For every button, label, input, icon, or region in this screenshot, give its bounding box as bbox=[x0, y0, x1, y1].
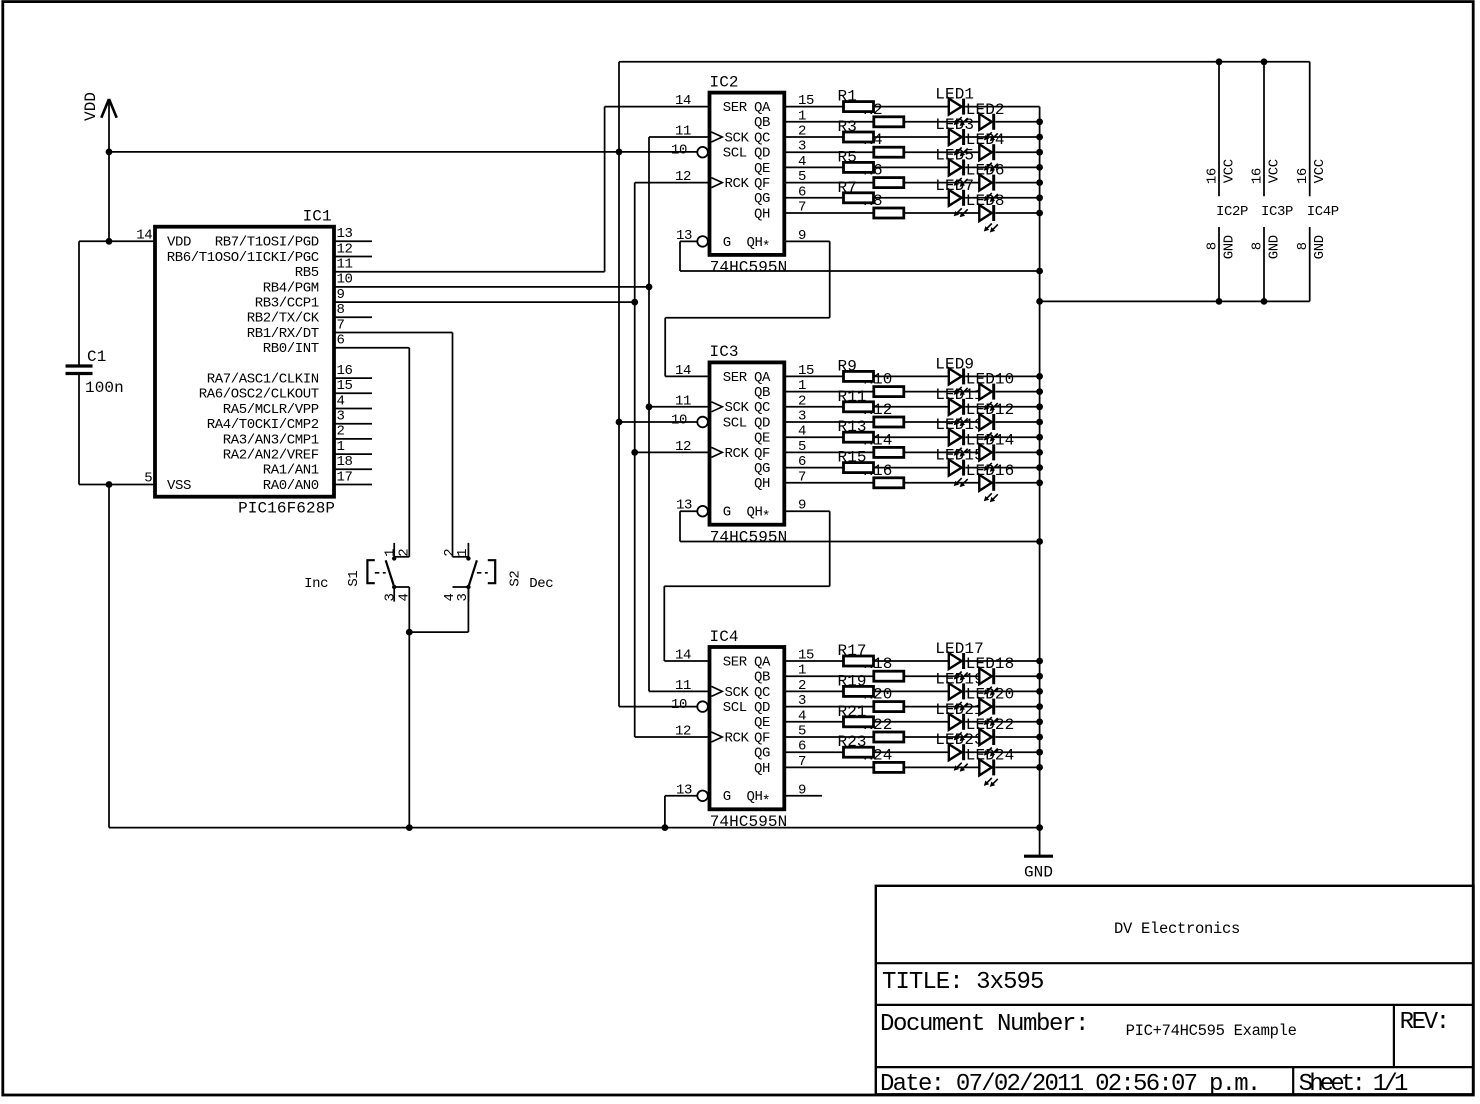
junction VCC rail at IC2P bbox=[1216, 58, 1223, 65]
wire 595 output pin to resistor R1 bbox=[784, 106, 843, 108]
label resistor R9 bbox=[838, 357, 857, 375]
switch S2 Dec bbox=[442, 543, 553, 602]
wire SCK vertical bus bbox=[649, 137, 710, 691]
svg-text:SCL: SCL bbox=[723, 415, 747, 431]
svg-text:SER: SER bbox=[723, 654, 748, 670]
wire resistor R18 to LED18 anode bbox=[904, 675, 980, 677]
svg-text:VCC: VCC bbox=[1222, 159, 1238, 183]
svg-text:RA7/ASC1/CLKIN: RA7/ASC1/CLKIN bbox=[207, 372, 319, 388]
LED LED3 bbox=[949, 129, 968, 157]
LED LED2 bbox=[979, 114, 998, 142]
wire LED16 cathode to GND rail bbox=[995, 482, 1039, 484]
label resistor R17 bbox=[838, 642, 867, 660]
wire LED22 cathode to GND rail bbox=[995, 736, 1039, 738]
wire resistor R15 to LED15 anode bbox=[874, 467, 949, 469]
switch S1 Inc bbox=[304, 543, 412, 602]
label resistor R20 bbox=[863, 686, 892, 704]
junction GND rail at IC3 G wire bbox=[1036, 538, 1043, 545]
svg-text:QF: QF bbox=[754, 176, 770, 192]
svg-text:10: 10 bbox=[671, 143, 687, 159]
label LED23 bbox=[935, 731, 984, 749]
svg-text:8: 8 bbox=[1250, 242, 1266, 250]
junction cathode rail bbox=[1036, 703, 1043, 710]
label resistor R11 bbox=[838, 388, 867, 406]
label LED18 bbox=[966, 655, 1015, 673]
svg-text:RCK: RCK bbox=[725, 176, 750, 192]
LED LED6 bbox=[979, 175, 998, 203]
svg-text:16: 16 bbox=[1250, 168, 1266, 184]
svg-text:QB: QB bbox=[754, 115, 770, 131]
wire net SCK (RB4 to SCK bus) bbox=[372, 286, 649, 288]
junction VCC rail at IC3P bbox=[1261, 58, 1268, 65]
junction RCK bus at RB3 bbox=[631, 299, 638, 306]
svg-text:RB2/TX/CK: RB2/TX/CK bbox=[247, 311, 320, 327]
svg-text:QD: QD bbox=[754, 415, 770, 431]
wire 595 output pin to resistor R4 bbox=[784, 151, 874, 153]
label LED9 bbox=[935, 355, 974, 373]
svg-text:RB0/INT: RB0/INT bbox=[263, 341, 319, 357]
label LED3 bbox=[935, 116, 974, 134]
wire 595 output pin to resistor R9 bbox=[784, 375, 843, 377]
wire IC3 G pin 13 to GND rail bbox=[680, 511, 1040, 541]
label LED17 bbox=[935, 640, 984, 658]
svg-text:10: 10 bbox=[671, 413, 687, 429]
svg-text:VSS: VSS bbox=[167, 478, 191, 494]
wire resistor R4 to LED4 anode bbox=[904, 151, 980, 153]
svg-text:RB1/RX/DT: RB1/RX/DT bbox=[247, 326, 319, 342]
svg-text:14: 14 bbox=[136, 227, 152, 243]
svg-text:12: 12 bbox=[337, 241, 353, 257]
resistor R21 bbox=[844, 717, 874, 727]
resistor R2 bbox=[874, 117, 904, 127]
wire 595 output pin to resistor R6 bbox=[784, 182, 874, 184]
svg-text:13: 13 bbox=[337, 226, 353, 242]
label LED14 bbox=[966, 431, 1015, 449]
junction cathode rail bbox=[1036, 688, 1043, 695]
wire LED12 cathode to GND rail bbox=[995, 421, 1039, 423]
resistor R6 bbox=[874, 178, 904, 188]
LED LED18 bbox=[979, 668, 998, 696]
svg-text:VCC: VCC bbox=[1312, 159, 1328, 183]
wire LED23 cathode to GND rail bbox=[965, 751, 1039, 753]
resistor R12 bbox=[874, 417, 904, 427]
svg-text:74HC595N: 74HC595N bbox=[710, 259, 788, 277]
wire 595 output pin to resistor R3 bbox=[784, 136, 843, 138]
wire 595 output pin to resistor R16 bbox=[784, 482, 874, 484]
label resistor R24 bbox=[863, 746, 892, 764]
IC U1 PIC16F628P (IC1) bbox=[136, 208, 372, 518]
wire 595 output pin to resistor R10 bbox=[784, 391, 874, 393]
svg-text:RCK: RCK bbox=[725, 446, 750, 462]
junction cathode rail bbox=[1036, 179, 1043, 186]
wire VDD net: arrow down to pin 14 and C1 bbox=[108, 100, 110, 241]
junction cathode rail bbox=[1036, 718, 1043, 725]
junction cathode rail bbox=[1036, 658, 1043, 665]
capacitor C1 100n bbox=[66, 348, 124, 397]
wire 595 output pin to resistor R8 bbox=[784, 212, 874, 214]
label LED10 bbox=[966, 371, 1015, 389]
junction SCK bus at RB4 bbox=[646, 284, 653, 291]
wire LED3 cathode to GND rail bbox=[965, 136, 1039, 138]
svg-text:QH: QH bbox=[746, 789, 762, 805]
LED LED7 bbox=[949, 190, 968, 218]
power pins IC3P 74HC595 VCC/GND bbox=[1250, 62, 1294, 302]
svg-text:SCL: SCL bbox=[723, 146, 747, 162]
label resistor R23 bbox=[838, 733, 867, 751]
LED LED13 bbox=[949, 429, 968, 457]
label LED19 bbox=[935, 670, 984, 688]
svg-text:QB: QB bbox=[754, 385, 770, 401]
junction RCK bus corner at IC4 pin 12 bbox=[635, 736, 710, 738]
svg-text:14: 14 bbox=[675, 93, 691, 109]
svg-text:8: 8 bbox=[1205, 242, 1221, 250]
svg-text:QG: QG bbox=[754, 191, 770, 207]
wire resistor R13 to LED13 anode bbox=[874, 436, 949, 438]
svg-text:QH: QH bbox=[754, 206, 770, 222]
svg-text:QD: QD bbox=[754, 700, 770, 716]
junction VDD bus corner at IC4 SCL pin 10 bbox=[619, 706, 697, 708]
resistor R20 bbox=[874, 702, 904, 712]
wire resistor R2 to LED2 anode bbox=[904, 121, 980, 123]
wire resistor R5 to LED5 anode bbox=[874, 166, 949, 168]
svg-text:RB5: RB5 bbox=[295, 265, 319, 281]
svg-text:16: 16 bbox=[337, 363, 353, 379]
wire 595 output pin to resistor R17 bbox=[784, 660, 843, 662]
IC U3 74HC595N (IC3) bbox=[671, 343, 814, 546]
LED LED9 bbox=[949, 368, 968, 396]
svg-text:QH: QH bbox=[746, 235, 762, 251]
svg-text:16: 16 bbox=[1295, 168, 1311, 184]
junction cathode rail bbox=[1036, 434, 1043, 441]
svg-text:IC1: IC1 bbox=[303, 208, 332, 226]
label resistor R12 bbox=[863, 401, 892, 419]
wire LED19 cathode to GND rail bbox=[965, 690, 1039, 692]
wire resistor R9 to LED9 anode bbox=[874, 375, 949, 377]
wire IC2 QH* pin 9 cascade to IC3 SER bbox=[665, 241, 830, 376]
svg-text:*: * bbox=[762, 793, 770, 809]
svg-text:*: * bbox=[762, 509, 770, 525]
power symbol VDD bbox=[82, 92, 117, 121]
label resistor R6 bbox=[863, 162, 882, 180]
LED LED20 bbox=[979, 699, 998, 727]
IC U2 74HC595N (IC2) bbox=[671, 73, 814, 276]
resistor R7 bbox=[844, 193, 874, 203]
junction cathode rail bbox=[1036, 464, 1043, 471]
wire switch commons to GND rail bbox=[409, 587, 468, 828]
wire GND bottom rail bbox=[109, 827, 1040, 829]
svg-text:RB4/PGM: RB4/PGM bbox=[263, 280, 319, 296]
wire C1 bottom to IC1 VSS pin 5 bbox=[79, 484, 155, 486]
svg-text:RA3/AN3/CMP1: RA3/AN3/CMP1 bbox=[223, 432, 319, 448]
LED LED17 bbox=[949, 653, 968, 681]
svg-text:18: 18 bbox=[337, 454, 353, 470]
junction cathode rail bbox=[1036, 764, 1043, 771]
wire resistor R20 to LED20 anode bbox=[904, 706, 980, 708]
junction GND rail at IC2 G wire bbox=[1036, 268, 1043, 275]
svg-text:QA: QA bbox=[754, 370, 771, 386]
svg-text:TITLE: 3x595: TITLE: 3x595 bbox=[882, 969, 1043, 996]
svg-text:QH: QH bbox=[754, 476, 770, 492]
svg-text:14: 14 bbox=[675, 648, 691, 664]
svg-text:Dec: Dec bbox=[529, 576, 553, 592]
junction cathode rail bbox=[1036, 373, 1043, 380]
label resistor R22 bbox=[863, 716, 892, 734]
wire IC3 QH* pin 9 cascade to IC4 SER bbox=[664, 511, 829, 661]
wire LED2 cathode to GND rail bbox=[995, 121, 1039, 123]
svg-text:PIC+74HC595 Example: PIC+74HC595 Example bbox=[1126, 1022, 1297, 1040]
resistor R17 bbox=[844, 656, 874, 666]
label resistor R14 bbox=[863, 431, 892, 449]
svg-text:VDD: VDD bbox=[167, 235, 191, 251]
label LED2 bbox=[966, 101, 1005, 119]
svg-text:IC3P: IC3P bbox=[1261, 204, 1293, 220]
resistor R15 bbox=[844, 463, 874, 473]
svg-text:QA: QA bbox=[754, 654, 771, 670]
label LED20 bbox=[966, 686, 1015, 704]
resistor R13 bbox=[844, 432, 874, 442]
svg-text:RA5/MCLR/VPP: RA5/MCLR/VPP bbox=[223, 402, 319, 418]
junction cathode rail bbox=[1036, 479, 1043, 486]
wire C1 branch vertical bbox=[78, 241, 80, 484]
svg-text:RCK: RCK bbox=[725, 730, 750, 746]
label LED12 bbox=[966, 401, 1015, 419]
junction GND rail at switches bbox=[406, 824, 413, 831]
label LED15 bbox=[935, 447, 984, 465]
junction cathode rail bbox=[1036, 149, 1043, 156]
svg-text:GND: GND bbox=[1312, 235, 1328, 259]
junction VDD bus at rail bbox=[616, 149, 623, 156]
junction GND at IC1 VSS bbox=[106, 481, 113, 488]
junction cathode rail at power GND rail bbox=[1036, 298, 1043, 305]
wire 595 output pin to resistor R5 bbox=[784, 166, 843, 168]
svg-text:3: 3 bbox=[337, 409, 345, 425]
junction SCK bus at IC3 pin 11 bbox=[646, 403, 710, 410]
wire resistor R14 to LED14 anode bbox=[904, 451, 980, 453]
svg-text:REV:: REV: bbox=[1400, 1009, 1448, 1036]
wire 595 output pin to resistor R7 bbox=[784, 197, 843, 199]
junction RCK bus at IC3 pin 12 bbox=[631, 449, 709, 456]
junction cathode rail bbox=[1036, 118, 1043, 125]
junction cathode rail bbox=[1036, 210, 1043, 217]
label LED4 bbox=[966, 131, 1005, 149]
svg-text:DV Electronics: DV Electronics bbox=[1114, 920, 1240, 938]
wire resistor R8 to LED8 anode bbox=[904, 212, 980, 214]
svg-text:11: 11 bbox=[337, 257, 353, 273]
wire 595 output pin to resistor R15 bbox=[784, 467, 843, 469]
svg-text:IC2: IC2 bbox=[710, 73, 739, 91]
svg-text:S1: S1 bbox=[346, 571, 362, 587]
wire resistor R11 to LED11 anode bbox=[874, 406, 949, 408]
svg-text:QE: QE bbox=[754, 161, 770, 177]
label resistor R15 bbox=[838, 449, 867, 467]
svg-text:4: 4 bbox=[337, 393, 345, 409]
resistor R3 bbox=[844, 132, 874, 142]
label LED6 bbox=[966, 162, 1005, 180]
LED LED16 bbox=[979, 475, 998, 503]
junction cathode rail bbox=[1036, 164, 1043, 171]
wire LED21 cathode to GND rail bbox=[965, 721, 1039, 723]
wire VDD rail to shift-register SCL/SRCLR pins bbox=[109, 151, 697, 153]
label resistor R2 bbox=[863, 101, 882, 119]
svg-text:8: 8 bbox=[337, 302, 345, 318]
wire 595 output pin to resistor R11 bbox=[784, 406, 843, 408]
resistor R4 bbox=[874, 147, 904, 157]
junction VDD bus at IC3 SCL pin 10 bbox=[616, 419, 698, 426]
wire LED18 cathode to GND rail bbox=[995, 675, 1039, 677]
wire 595 output pin to resistor R18 bbox=[784, 675, 874, 677]
junction VDD at rail bbox=[106, 149, 113, 156]
label LED13 bbox=[935, 416, 984, 434]
svg-text:QG: QG bbox=[754, 746, 770, 762]
wire resistor R3 to LED3 anode bbox=[874, 136, 949, 138]
svg-text:15: 15 bbox=[337, 378, 353, 394]
junction cathode rail bbox=[1036, 419, 1043, 426]
LED LED15 bbox=[949, 460, 968, 488]
LED LED22 bbox=[979, 729, 998, 757]
svg-text:8: 8 bbox=[1295, 242, 1311, 250]
svg-text:QF: QF bbox=[754, 446, 770, 462]
label resistor R13 bbox=[838, 418, 867, 436]
resistor R23 bbox=[844, 747, 874, 757]
svg-text:*: * bbox=[762, 239, 770, 255]
wire VCC top rail bbox=[619, 61, 1310, 63]
svg-text:SCK: SCK bbox=[725, 130, 750, 146]
svg-text:100n: 100n bbox=[85, 379, 124, 397]
resistor R19 bbox=[844, 686, 874, 696]
resistor R22 bbox=[874, 732, 904, 742]
label resistor R10 bbox=[863, 371, 892, 389]
wire IC1 VDD pin 14 to C1 top bbox=[79, 240, 155, 242]
svg-text:Date: 07/02/2011 02:56:07 p.m: Date: 07/02/2011 02:56:07 p.m. bbox=[880, 1071, 1260, 1098]
wire LED10 cathode to GND rail bbox=[995, 391, 1039, 393]
label resistor R3 bbox=[838, 118, 857, 136]
wire resistor R22 to LED22 anode bbox=[904, 736, 980, 738]
svg-text:RB6/T1OSO/1ICKI/PGC: RB6/T1OSO/1ICKI/PGC bbox=[167, 250, 319, 266]
wire 595 output pin to resistor R19 bbox=[784, 690, 843, 692]
svg-text:QE: QE bbox=[754, 431, 770, 447]
wire 595 output pin to resistor R2 bbox=[784, 121, 874, 123]
wire resistor R1 to LED1 anode bbox=[874, 106, 949, 108]
label resistor R5 bbox=[838, 148, 857, 166]
svg-text:9: 9 bbox=[337, 287, 345, 303]
LED LED23 bbox=[949, 744, 968, 772]
wire resistor R17 to LED17 anode bbox=[874, 660, 949, 662]
svg-text:Sheet: 1/1: Sheet: 1/1 bbox=[1299, 1071, 1408, 1098]
junction cathode rail bbox=[1036, 673, 1043, 680]
label LED8 bbox=[966, 192, 1005, 210]
svg-text:2: 2 bbox=[337, 424, 345, 440]
label resistor R1 bbox=[838, 88, 857, 106]
label LED22 bbox=[966, 716, 1015, 734]
wire LED9 cathode to GND rail bbox=[965, 375, 1039, 377]
svg-text:QE: QE bbox=[754, 715, 770, 731]
LED LED4 bbox=[979, 144, 998, 172]
LED LED14 bbox=[979, 444, 998, 472]
wire LED7 cathode to GND rail bbox=[965, 197, 1039, 199]
svg-text:VCC: VCC bbox=[1267, 159, 1283, 183]
wire 595 output pin to resistor R21 bbox=[784, 721, 843, 723]
wire resistor R24 to LED24 anode bbox=[904, 766, 980, 768]
svg-text:GND: GND bbox=[1024, 864, 1053, 882]
svg-text:16: 16 bbox=[1205, 168, 1221, 184]
svg-text:QC: QC bbox=[754, 130, 770, 146]
svg-text:SCK: SCK bbox=[725, 400, 750, 416]
svg-text:SCK: SCK bbox=[725, 685, 750, 701]
label resistor R7 bbox=[838, 179, 857, 197]
wire resistor R12 to LED12 anode bbox=[904, 421, 980, 423]
wire IC4 G pin 13 to GND bottom rail bbox=[665, 796, 697, 828]
wire VDD vertical bus to SCL pins and VCC rail bbox=[618, 62, 620, 707]
wire net RCK (RB3 to RCK bus) bbox=[372, 301, 635, 303]
svg-text:11: 11 bbox=[675, 124, 691, 140]
wire LED14 cathode to GND rail bbox=[995, 451, 1039, 453]
wire LED13 cathode to GND rail bbox=[965, 436, 1039, 438]
label LED7 bbox=[935, 177, 974, 195]
wire 595 output pin to resistor R13 bbox=[784, 436, 843, 438]
wire resistor R21 to LED21 anode bbox=[874, 721, 949, 723]
label LED5 bbox=[935, 146, 974, 164]
junction cathode rail bbox=[1036, 388, 1043, 395]
svg-text:RA2/AN2/VREF: RA2/AN2/VREF bbox=[223, 448, 319, 464]
svg-text:IC4P: IC4P bbox=[1307, 204, 1339, 220]
wire LED4 cathode to GND rail bbox=[995, 151, 1039, 153]
resistor R8 bbox=[874, 208, 904, 218]
label resistor R16 bbox=[863, 462, 892, 480]
wire resistor R19 to LED19 anode bbox=[874, 690, 949, 692]
svg-text:1: 1 bbox=[455, 549, 471, 557]
svg-text:10: 10 bbox=[337, 272, 353, 288]
svg-text:IC2P: IC2P bbox=[1216, 204, 1248, 220]
svg-text:RA6/OSC2/CLKOUT: RA6/OSC2/CLKOUT bbox=[199, 387, 319, 403]
svg-text:QB: QB bbox=[754, 670, 770, 686]
wire LED cathode GND rail vertical bbox=[1039, 107, 1041, 857]
resistor R5 bbox=[844, 162, 874, 172]
svg-text:GND: GND bbox=[1267, 235, 1283, 259]
label resistor R21 bbox=[838, 703, 867, 721]
label LED21 bbox=[935, 701, 984, 719]
svg-text:QD: QD bbox=[754, 146, 770, 162]
svg-text:SCL: SCL bbox=[723, 700, 747, 716]
resistor R18 bbox=[874, 671, 904, 681]
wire LED8 cathode to GND rail bbox=[995, 212, 1039, 214]
svg-text:1: 1 bbox=[337, 439, 345, 455]
junction GND rail at IC2P bbox=[1216, 298, 1223, 305]
label LED11 bbox=[935, 386, 984, 404]
svg-text:Document Number:: Document Number: bbox=[880, 1011, 1088, 1038]
LED LED24 bbox=[979, 759, 998, 787]
junction cathode rail bbox=[1036, 194, 1043, 201]
LED LED8 bbox=[979, 205, 998, 233]
label LED1 bbox=[935, 86, 974, 104]
wire IC2 G pin 13 to GND rail bbox=[680, 241, 1040, 271]
junction switch common bbox=[406, 629, 413, 636]
resistor R14 bbox=[874, 447, 904, 457]
junction cathode rail bbox=[1036, 749, 1043, 756]
svg-text:5: 5 bbox=[144, 471, 152, 487]
resistor R24 bbox=[874, 762, 904, 772]
LED LED1 bbox=[949, 99, 968, 127]
wire GND rail to IC power GND pins bbox=[1040, 300, 1310, 302]
svg-text:QG: QG bbox=[754, 461, 770, 477]
LED LED21 bbox=[949, 714, 968, 742]
svg-text:6: 6 bbox=[337, 333, 345, 349]
junction cathode rail bbox=[1036, 403, 1043, 410]
LED LED10 bbox=[979, 384, 998, 412]
resistor R16 bbox=[874, 478, 904, 488]
junction GND rail at IC3P bbox=[1261, 298, 1268, 305]
junction bottom rail at IC4 G wire bbox=[662, 824, 669, 831]
svg-text:QH: QH bbox=[746, 505, 762, 521]
